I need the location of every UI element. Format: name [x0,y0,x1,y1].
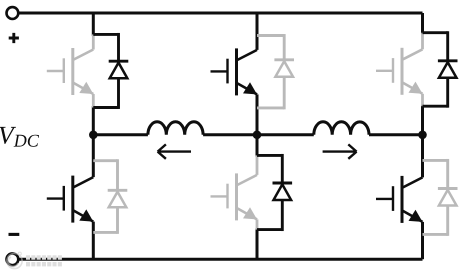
DC+ input terminal [6,7,18,19]
minus label [9,233,20,236]
IGBT Q2 upper leg2 [237,50,258,61]
inductor L1 [148,122,203,135]
wire node A to L1 [93,133,148,136]
diode D1 antiparallel with Q1 [93,33,118,36]
diode D3 antiparallel with Q3 [423,31,448,34]
watermark logo [7,252,22,269]
diode D5 antiparallel with Q5 [257,154,282,157]
IGBT Q5 lower leg2 (inactive, gray) [256,155,259,175]
IGBT Q4 lower leg1 [73,177,94,188]
IGBT Q3 upper leg3 (inactive, gray) [421,33,424,50]
diode D6 antiparallel with Q6 (inactive, gray) [423,159,448,162]
node A junction (leg1 midpoint) [89,131,98,140]
wire leg 1 vertical [92,13,95,36]
current arrow right under L2 [323,144,357,158]
wire node B to L2 [257,133,314,136]
wire L2 to node C [369,133,423,136]
diode D4 antiparallel with Q4 (inactive, gray) [93,159,117,162]
plus label [9,33,19,43]
node B junction (leg2 midpoint) [253,131,262,140]
inductor L2 [314,122,369,135]
IGBT Q6 lower leg3 [402,177,423,188]
wire top DC bus [18,12,422,15]
Vdc source label [0,127,39,147]
node C junction (leg3 midpoint) [418,131,427,140]
current arrow left under L1 [158,144,191,158]
wire bottom DC bus [18,258,422,261]
wire leg 3 vertical [421,13,424,34]
IGBT Q1 upper leg1 (inactive, gray) [92,34,95,49]
DC- input terminal [6,253,18,265]
watermark text [26,255,62,266]
wire L1 to node B [203,133,257,136]
diode D2 antiparallel with Q2 (inactive, gray) [257,34,284,37]
wire leg 2 vertical [256,13,259,50]
